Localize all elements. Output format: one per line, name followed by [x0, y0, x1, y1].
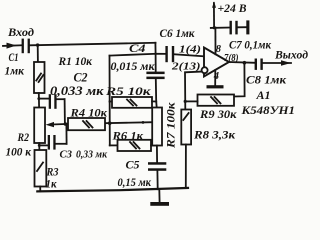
junction blob on wiper wire [142, 121, 145, 124]
svg-text:R9 30к: R9 30к [199, 109, 238, 121]
wire vertical net left [109, 56, 111, 146]
capacitor C4 [111, 41, 165, 102]
ground bus [37, 188, 188, 192]
svg-text:0,33 мк: 0,33 мк [76, 149, 107, 161]
capacitor C7 [229, 21, 272, 52]
svg-text:А1: А1 [256, 88, 271, 102]
capacitor C1 [5, 39, 30, 78]
svg-text:С2: С2 [74, 71, 88, 85]
svg-text:К548УН1: К548УН1 [240, 103, 295, 117]
svg-text:R8 3,3к: R8 3,3к [193, 130, 236, 142]
wire pin 8 supply [214, 28, 216, 55]
svg-text:Вход: Вход [7, 25, 34, 39]
svg-text:+24 В: +24 В [218, 1, 247, 15]
svg-text:8: 8 [216, 44, 222, 55]
wire R8 to ground bus [185, 145, 187, 189]
svg-text:С5: С5 [126, 158, 140, 172]
wire wiper to network [65, 122, 152, 124]
wire inverting input [185, 72, 202, 110]
node wiper/vertical [108, 121, 112, 125]
node output [243, 61, 247, 65]
node R1/C2 [37, 97, 40, 100]
resistor R7 [152, 101, 177, 149]
wire horizontal net top [110, 54, 156, 56]
wire C2 to wiper [64, 99, 66, 124]
capacitor C6 [156, 28, 204, 62]
svg-text:2(13): 2(13) [171, 62, 201, 73]
svg-text:1(4): 1(4) [179, 44, 201, 55]
resistor R3 [35, 150, 59, 191]
capacitor C5 [118, 146, 167, 190]
wire R1-R2 link [38, 93, 40, 108]
capacitor C2 [39, 71, 104, 109]
svg-text:С1: С1 [9, 50, 19, 64]
svg-text:0,033 мк: 0,033 мк [50, 84, 104, 98]
svg-text:Выход: Выход [274, 48, 308, 62]
wire pin 4 [214, 70, 216, 85]
wiper arrow of R2 [46, 122, 65, 127]
node wiper/C2/C3 [64, 122, 68, 126]
wire R1 top stub [37, 45, 39, 62]
ground symbol [150, 189, 169, 206]
node supply [213, 26, 216, 29]
node inv/R9/R8 [184, 100, 187, 103]
wire R2-R3 link [38, 143, 40, 150]
capacitor C8 [246, 59, 287, 87]
resistor R1 [34, 54, 93, 93]
resistor R8 [181, 110, 236, 145]
svg-text:0,15 мк: 0,15 мк [118, 177, 153, 189]
potentiometer R2 [6, 108, 46, 159]
chassis ground pin 4 [207, 85, 224, 88]
svg-text:R1 10к: R1 10к [58, 54, 93, 68]
capacitor C3 [39, 135, 107, 161]
resistor R6 [110, 131, 157, 152]
svg-text:С3: С3 [60, 149, 73, 161]
svg-text:С6 1мк: С6 1мк [160, 28, 196, 40]
resistor R9 [185, 95, 238, 122]
supply rail [211, 27, 231, 29]
svg-text:С4: С4 [129, 41, 146, 55]
chassis ground C7 [246, 20, 249, 34]
svg-text:R2: R2 [17, 132, 30, 144]
wire C3 to wiper [65, 124, 67, 144]
svg-text:С8 1мк: С8 1мк [246, 75, 287, 87]
svg-text:R4 10к: R4 10к [69, 108, 108, 120]
resistor R4 [68, 108, 108, 131]
resistor R5 [105, 86, 152, 108]
node R5/C4/R7 [152, 100, 156, 102]
wire feedback drop [234, 63, 245, 97]
input terminal Вход [3, 25, 34, 49]
svg-text:R6 1к: R6 1к [111, 131, 144, 143]
output terminal Выход [263, 48, 308, 66]
svg-text:R5 10к: R5 10к [105, 86, 152, 98]
svg-text:100 к: 100 к [6, 146, 33, 158]
wire top bus [30, 43, 156, 46]
wire output [229, 61, 255, 64]
svg-text:0,015 мк: 0,015 мк [111, 61, 156, 73]
node R2/C3 [38, 144, 41, 147]
svg-text:1к: 1к [46, 177, 58, 191]
+24V supply arrow [212, 1, 246, 28]
svg-text:1мк: 1мк [5, 64, 25, 78]
op-amp A1 triangle [171, 44, 239, 82]
node A junction [36, 43, 39, 46]
svg-text:С7 0,1мк: С7 0,1мк [229, 40, 272, 52]
svg-text:R7 100к: R7 100к [166, 101, 178, 149]
